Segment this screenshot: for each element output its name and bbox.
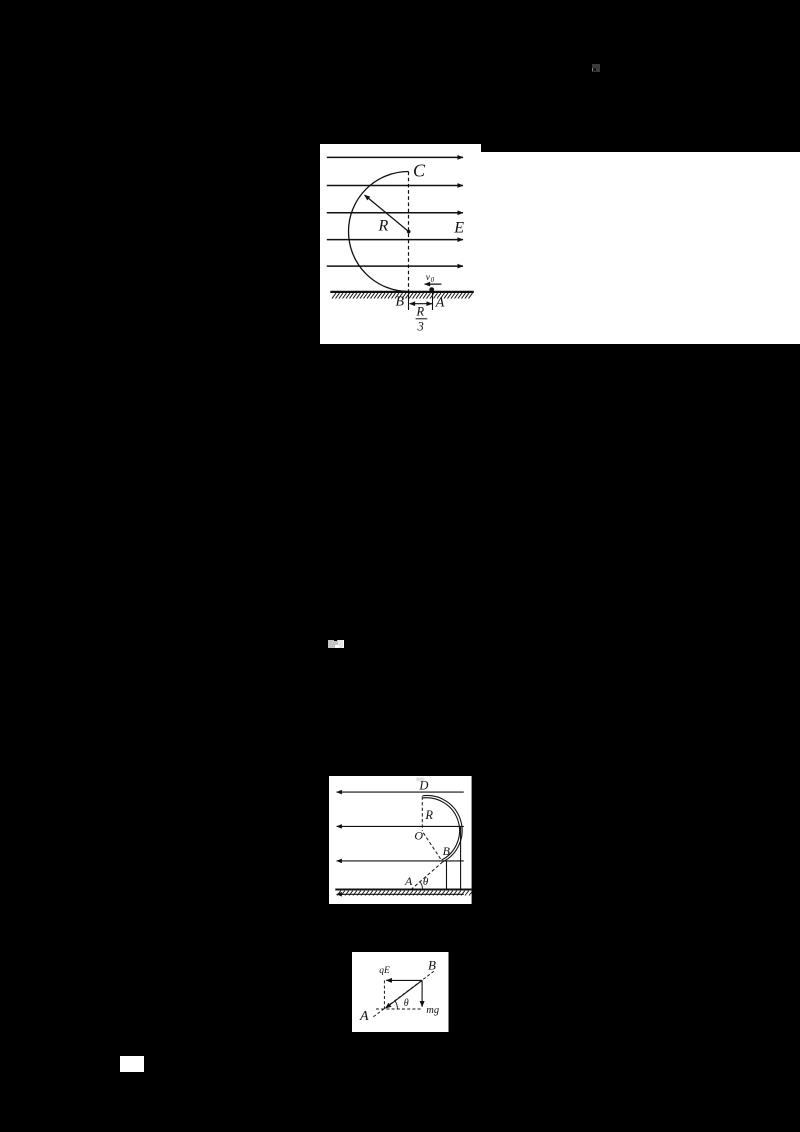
svg-text:0: 0: [431, 276, 435, 284]
svg-text:D: D: [418, 778, 428, 792]
svg-text:B: B: [396, 295, 405, 310]
svg-text:R: R: [416, 305, 425, 319]
svg-text:qE: qE: [379, 965, 390, 975]
svg-text:θ: θ: [423, 875, 429, 887]
svg-text:θ: θ: [404, 997, 409, 1008]
svg-text:B: B: [428, 957, 436, 972]
svg-text:R: R: [424, 808, 433, 822]
svg-text:O: O: [414, 828, 423, 842]
svg-text:E: E: [453, 220, 464, 237]
svg-text:R: R: [378, 217, 389, 234]
svg-text:A: A: [359, 1009, 369, 1024]
svg-text:C: C: [413, 161, 426, 181]
svg-text:B: B: [443, 843, 451, 857]
svg-text:3: 3: [417, 320, 424, 334]
svg-text:A: A: [404, 873, 413, 887]
svg-text:A: A: [435, 295, 445, 310]
svg-text:mg: mg: [426, 1004, 439, 1015]
